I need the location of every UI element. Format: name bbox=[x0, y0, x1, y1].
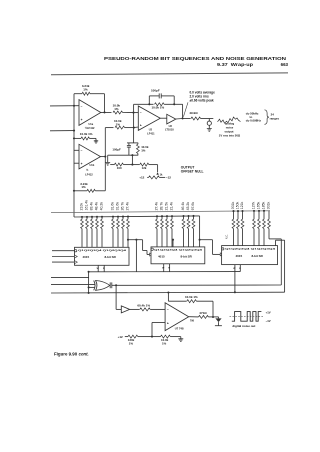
annotation arrow to output node bbox=[183, 102, 188, 117]
node tap on SR1 Q8 bbox=[127, 239, 129, 241]
ground symbol bottom bbox=[180, 337, 182, 339]
svg-text:663: 663 bbox=[281, 62, 289, 67]
svg-text:1%: 1% bbox=[162, 342, 167, 346]
svg-text:dc-0.098Hz: dc-0.098Hz bbox=[246, 119, 262, 123]
svg-text:½LF412: ½LF412 bbox=[85, 126, 95, 130]
wire offset junction vertical bbox=[131, 155, 133, 164]
resistor R 471 ohm bbox=[199, 315, 219, 318]
wire into U2 minus bbox=[134, 112, 139, 114]
xor gate feedback bbox=[94, 281, 110, 291]
svg-text:1%: 1% bbox=[114, 107, 119, 111]
resistor R 10.0k U1b to U2 noninverting bbox=[105, 126, 134, 129]
svg-text:Figure 9.90: Figure 9.90 bbox=[54, 352, 78, 357]
wire SR3 serial-out loop bbox=[275, 240, 277, 245]
svg-text:21.4k: 21.4k bbox=[169, 202, 173, 211]
wire input line lower left bbox=[50, 130, 74, 132]
svg-text:10.0k 1%: 10.0k 1% bbox=[185, 295, 198, 299]
shift register U4 4015 (box 1) bbox=[75, 247, 130, 265]
wire vertical minus-plus column bbox=[133, 104, 135, 143]
svg-text:Q1Q2Q3Q4 Q1Q2Q3Q4: Q1Q2Q3Q4 Q1Q2Q3Q4 bbox=[225, 247, 277, 250]
svg-text:127k: 127k bbox=[251, 201, 255, 209]
header rule bbox=[51, 73, 288, 75]
svg-text:1V rms into 50Ω: 1V rms into 50Ω bbox=[219, 133, 241, 137]
weighting resistor 48.4k bbox=[96, 216, 99, 248]
resistor R 10.0k feedback of U2 bbox=[134, 103, 183, 106]
node plus divider bbox=[151, 336, 153, 338]
svg-text:796: 796 bbox=[190, 320, 195, 323]
weighting resistor 21.5k bbox=[166, 215, 169, 247]
svg-text:digital noise out: digital noise out bbox=[232, 324, 255, 328]
svg-text:−12: −12 bbox=[166, 176, 171, 180]
resistor R 10.0k to ground bbox=[152, 335, 181, 338]
wire cap network top rail bbox=[127, 142, 138, 144]
node tap junction bbox=[199, 239, 201, 241]
ground symbol near U1a bbox=[95, 138, 97, 140]
svg-text:1%: 1% bbox=[141, 149, 146, 153]
node U2 inverting input bbox=[132, 112, 134, 114]
node U1a output junction bbox=[103, 111, 105, 113]
wire U1b output to vertical bbox=[101, 156, 106, 158]
svg-text:+12: +12 bbox=[139, 176, 144, 180]
wire plus input bbox=[152, 322, 165, 324]
svg-text:1%: 1% bbox=[129, 342, 134, 346]
resistor R 3.24k feedback of U1a bbox=[74, 92, 105, 112]
weighting resistor 43.2k bbox=[187, 215, 190, 247]
wire stub to U1b noninverting bbox=[74, 162, 79, 164]
op-amp U1a bbox=[79, 100, 101, 126]
svg-text:ranges: ranges bbox=[270, 117, 280, 121]
svg-text:−: − bbox=[140, 111, 142, 115]
svg-text:±0.66 volts peak: ±0.66 volts peak bbox=[190, 98, 214, 102]
svg-text:+: + bbox=[81, 162, 83, 166]
svg-text:+: + bbox=[140, 124, 142, 128]
svg-text:Q1Q2Q3Q4 Q1Q2Q3Q4: Q1Q2Q3Q4 Q1Q2Q3Q4 bbox=[154, 249, 204, 252]
svg-text:10.0k 1%: 10.0k 1% bbox=[152, 105, 165, 109]
node U1b output bbox=[104, 156, 106, 158]
buffer U3 LT1010 bbox=[160, 114, 176, 124]
ground symbol offset network bbox=[107, 155, 109, 162]
svg-text:+1V: +1V bbox=[266, 310, 271, 314]
wire cap network bottom rail bbox=[108, 154, 139, 156]
svg-text:U1a: U1a bbox=[89, 123, 94, 126]
weighting resistor 31.6k bbox=[112, 216, 115, 248]
node U2 noninverting input bbox=[133, 127, 135, 129]
wire U7 output bbox=[189, 316, 199, 318]
svg-text:161.4k: 161.4k bbox=[84, 200, 88, 211]
node reset rail left bbox=[88, 271, 90, 273]
weighting resistor 46.4k bbox=[182, 215, 185, 247]
svg-text:301k: 301k bbox=[231, 201, 235, 209]
shift register U5 4015 (box 2) bbox=[151, 247, 205, 264]
node analog output junction bbox=[182, 117, 184, 119]
weighting resistor 97.6k bbox=[192, 215, 195, 247]
clock bubble box3 bbox=[222, 248, 224, 250]
weighting resistor 150k bbox=[237, 210, 240, 246]
node offset junction bbox=[131, 164, 133, 166]
weighting resistor 31.6k bbox=[117, 216, 120, 248]
svg-text:−1V: −1V bbox=[266, 319, 271, 323]
resistor R 10.0k to U2 inverting bbox=[113, 111, 134, 114]
wire vertical V136 bbox=[135, 240, 137, 272]
weighting resistor 28.7k bbox=[161, 215, 164, 247]
op-amp U7 748 bbox=[165, 303, 189, 331]
svg-text:12k: 12k bbox=[142, 166, 147, 170]
wire rail2 drop to SR2 Q8 bbox=[199, 216, 201, 247]
svg-text:27.4k: 27.4k bbox=[154, 202, 158, 211]
wire V88 vertical bbox=[88, 272, 90, 293]
svg-text:97.6k: 97.6k bbox=[191, 202, 195, 211]
svg-text:301k: 301k bbox=[266, 201, 270, 209]
reset pins box3 bbox=[234, 265, 236, 272]
reset rail under boxes bbox=[89, 271, 241, 273]
node feedback junction on V1 bbox=[73, 190, 75, 192]
weighting resistor 301k bbox=[232, 210, 235, 246]
svg-text:LT1010: LT1010 bbox=[165, 128, 174, 132]
resistor R 12k bbox=[132, 163, 157, 166]
svg-text:1%: 1% bbox=[116, 122, 121, 126]
svg-text:PSEUDO-RANDOM BIT SEQUENCES AN: PSEUDO-RANDOM BIT SEQUENCES AND NOISE GE… bbox=[104, 56, 287, 62]
svg-text:LF411: LF411 bbox=[147, 131, 155, 135]
svg-text:100μF: 100μF bbox=[112, 147, 121, 151]
svg-text:U7 748: U7 748 bbox=[175, 327, 184, 331]
wire U2 plus entry bbox=[134, 126, 139, 129]
node on V1 at 10.0k bbox=[73, 137, 75, 139]
svg-text:31.6k: 31.6k bbox=[110, 202, 114, 211]
resistor R 49.9 ohm output bbox=[183, 117, 214, 120]
weighting resistor 121k bbox=[241, 210, 244, 246]
op-amp U1b bbox=[79, 144, 101, 169]
svg-text:+: + bbox=[167, 322, 169, 326]
node M3 at feedback drop bbox=[167, 291, 169, 293]
svg-text:471Ω: 471Ω bbox=[199, 311, 207, 315]
svg-text:4015: 4015 bbox=[83, 255, 90, 259]
svg-text:+: + bbox=[81, 118, 83, 122]
node cap rail right bbox=[173, 103, 175, 105]
wire tap segment bbox=[172, 240, 174, 247]
svg-text:−: − bbox=[81, 149, 83, 153]
node junction on U1a input bbox=[73, 105, 75, 107]
svg-text:OFFSET NULL: OFFSET NULL bbox=[181, 170, 204, 174]
svg-text:100: 100 bbox=[117, 166, 122, 170]
svg-text:60.4k 1%: 60.4k 1% bbox=[137, 304, 150, 308]
svg-text:N.C.: N.C. bbox=[225, 234, 229, 239]
noise waveform squiggle bbox=[218, 117, 241, 123]
shift register U6 4015 (box 3) bbox=[222, 246, 278, 265]
svg-text:Q1Q2Q3Q4 Q1Q2Q3Q4: Q1Q2Q3Q4 Q1Q2Q3Q4 bbox=[78, 249, 128, 252]
svg-text:+12: +12 bbox=[118, 335, 123, 339]
wire summing junction vertical V1 bbox=[73, 94, 75, 217]
buffer gate digital path bbox=[116, 306, 130, 313]
wire buffer out bbox=[176, 118, 183, 121]
resistor R 10.0k U1a to ground bbox=[74, 137, 96, 140]
brace for ranges bbox=[265, 110, 269, 125]
weighting resistor 210k bbox=[81, 216, 84, 247]
capacitor C 100pF bbox=[148, 96, 150, 104]
weighting resistor 165k bbox=[258, 210, 261, 246]
serial input arrowhead SR2 bbox=[150, 253, 153, 256]
weighting resistor 185k bbox=[263, 210, 266, 246]
clock input bubble box1 bbox=[52, 250, 77, 252]
svg-text:U1b: U1b bbox=[90, 164, 95, 167]
svg-text:21.5k: 21.5k bbox=[164, 202, 168, 211]
svg-text:150k: 150k bbox=[235, 201, 239, 209]
svg-text:121k: 121k bbox=[240, 201, 244, 209]
svg-text:165k: 165k bbox=[256, 201, 260, 209]
svg-text:LF412: LF412 bbox=[85, 172, 93, 176]
svg-text:27.4k: 27.4k bbox=[125, 202, 129, 211]
resistor R 10.0k feedback U7 bbox=[168, 300, 213, 317]
weighting resistor 40.2k bbox=[101, 216, 104, 248]
wire tap to SR3 serial input bbox=[200, 239, 213, 241]
capacitor C 100uF bbox=[128, 143, 130, 145]
svg-text:1%: 1% bbox=[81, 185, 86, 189]
enable input arrow box1 bbox=[52, 261, 77, 264]
svg-text:8-bit SR: 8-bit SR bbox=[181, 255, 193, 259]
svg-text:4015: 4015 bbox=[158, 255, 165, 259]
weighting resistor 83.4k bbox=[91, 216, 94, 248]
svg-text:49.9Ω: 49.9Ω bbox=[189, 111, 198, 115]
svg-text:43.2k: 43.2k bbox=[186, 202, 190, 211]
summing rail 2 bbox=[74, 216, 200, 217]
node bottom rail bbox=[131, 154, 133, 156]
weighting resistor 127k bbox=[253, 210, 256, 246]
svg-text:−: − bbox=[81, 105, 83, 109]
svg-text:40.2k: 40.2k bbox=[99, 202, 103, 211]
wire XOR output line bbox=[112, 284, 281, 286]
svg-text:28.7k: 28.7k bbox=[159, 202, 163, 211]
wire SR3 reset drop bbox=[234, 272, 236, 293]
weighting resistor 27.4k bbox=[127, 215, 130, 247]
wire SR3 Q-last to loop bbox=[269, 238, 281, 240]
wire input line to U1a inverting input bbox=[50, 105, 79, 107]
weighting resistor 27.4k bbox=[156, 215, 159, 247]
node U7 output bbox=[212, 316, 214, 318]
resistor R 130k bbox=[125, 335, 152, 338]
svg-text:83.4k: 83.4k bbox=[89, 202, 93, 211]
svg-text:9.37 Wrap-up: 9.37 Wrap-up bbox=[217, 62, 253, 67]
svg-text:−: − bbox=[167, 308, 169, 312]
serial input arrowhead SR3 bbox=[220, 253, 223, 256]
wire U1a output bbox=[101, 112, 112, 114]
node XOR output branch bbox=[115, 284, 117, 286]
digital waveform icon bbox=[230, 312, 264, 322]
wire plus divider vertical bbox=[151, 323, 153, 337]
svg-text:26.7k: 26.7k bbox=[120, 202, 124, 211]
clock bubble box2 bbox=[151, 248, 153, 250]
node M3 at SR3 reset drop bbox=[234, 291, 236, 293]
wire stub to U1b inverting bbox=[74, 149, 79, 151]
capacitor at XOR output bbox=[109, 282, 111, 288]
svg-text:8-bit SR: 8-bit SR bbox=[105, 255, 117, 259]
svg-text:100pF: 100pF bbox=[151, 89, 160, 93]
connector circle output jack bbox=[207, 119, 212, 132]
resistor R 60.4k bbox=[130, 308, 166, 311]
svg-text:48.4k: 48.4k bbox=[94, 202, 98, 211]
summing rail 1 (long) bbox=[51, 211, 270, 213]
wire feedback drop V168 bbox=[167, 293, 169, 302]
svg-text:46.4k: 46.4k bbox=[181, 202, 185, 211]
svg-text:cont.: cont. bbox=[78, 352, 89, 357]
op-amp U2 bbox=[138, 106, 160, 130]
resistor R 3.24k feedback of U1b bbox=[74, 189, 105, 192]
resistor R 10.0k shunt bbox=[137, 143, 140, 155]
node XOR input stub bbox=[88, 286, 90, 288]
weighting resistor 21.4k bbox=[171, 215, 174, 247]
node M3 at V88 bbox=[88, 292, 90, 294]
reset pins box2 bbox=[163, 264, 165, 272]
node tap between SR2 SR3 bbox=[172, 239, 174, 241]
svg-text:1%: 1% bbox=[83, 87, 88, 91]
wire tap from SR1 to SR2 serial bbox=[128, 239, 143, 241]
svg-text:4015: 4015 bbox=[236, 254, 243, 258]
output terminal arrow bbox=[215, 317, 222, 326]
wire branch down to buffer bbox=[115, 285, 117, 309]
svg-text:dc-50kHz: dc-50kHz bbox=[246, 111, 259, 115]
svg-text:185k: 185k bbox=[261, 201, 265, 209]
wire stub to XOR input B bbox=[89, 286, 95, 288]
svg-text:8-bit SR: 8-bit SR bbox=[252, 254, 264, 258]
svg-text:210k: 210k bbox=[79, 203, 83, 211]
wire margin line M2 to XOR bbox=[51, 283, 95, 285]
svg-text:31.6k: 31.6k bbox=[115, 202, 119, 211]
wire margin line M3 digital out bbox=[51, 291, 285, 294]
resistor R 100 bbox=[110, 163, 132, 166]
svg-text:10.0k 1%: 10.0k 1% bbox=[80, 132, 93, 136]
potentiometer offset null bbox=[147, 165, 165, 179]
node V136 top bbox=[135, 239, 137, 241]
weighting resistor 161.4k bbox=[86, 216, 89, 247]
reset pins box1 bbox=[97, 265, 99, 271]
weighting resistor 26.7k bbox=[122, 216, 125, 248]
data input arrow box1 bbox=[52, 255, 77, 258]
wire margin line M1 bbox=[51, 276, 89, 278]
weighting resistor 301k bbox=[268, 211, 271, 239]
node cap rail left bbox=[148, 103, 150, 105]
node junction lower input bbox=[73, 130, 75, 132]
